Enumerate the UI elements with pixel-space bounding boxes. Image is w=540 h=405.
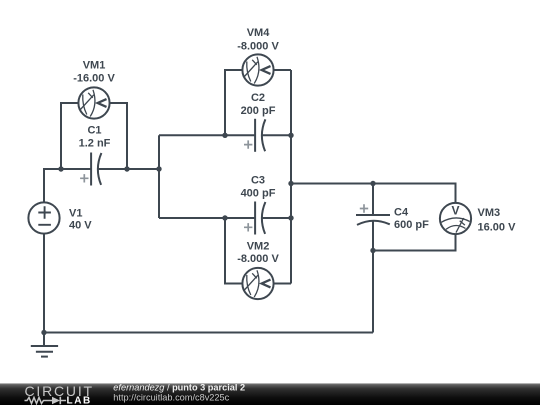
wire C4 bottom lead [372,221,374,251]
wire C4 to ground rail [372,251,374,333]
wire VM1 left lead [61,103,78,169]
wire node B to VM3 top [291,184,456,203]
svg-text:-16.00 V: -16.00 V [73,73,115,85]
node junction ground [41,330,46,335]
svg-text:efernandezg / punto 3 parcial: efernandezg / punto 3 parcial 2 [113,382,245,392]
wire VM4 left lead [225,70,242,135]
svg-text:V: V [451,204,459,218]
capacitor C2 [255,119,265,152]
wire node A to C2 left plate [159,134,255,136]
svg-text:VM3: VM3 [478,207,501,219]
node junction B tap [288,181,293,186]
node junction C2 right [288,133,293,138]
svg-text:V1: V1 [69,207,82,219]
svg-text:400 pF: 400 pF [241,187,276,199]
svg-text:C1: C1 [87,125,101,137]
logo diode [52,397,60,404]
node junction C1 right [124,166,129,171]
footer bar [0,383,540,405]
plus C4 [360,204,368,212]
node junction C3 right [288,215,293,220]
capacitor C4 [356,215,390,225]
plus C1 [80,174,88,182]
wire C3 right plate to node B [262,217,291,219]
svg-text:200 pF: 200 pF [241,105,276,117]
wire VM3 bottom loop [373,234,456,250]
svg-text:C4: C4 [394,207,409,219]
ground [31,333,58,357]
node junction VM4 left [222,133,227,138]
wire node A vertical [158,135,160,218]
svg-text:40 V: 40 V [69,220,92,232]
plus C3 [244,223,252,231]
wire V1 bottom lead [43,234,45,333]
wire ground rail [44,332,373,334]
capacitor C3 [255,202,265,235]
wire node B vertical [290,70,292,284]
capacitor C1 [91,153,101,186]
svg-text:C2: C2 [251,92,265,104]
svg-text:-8.000 V: -8.000 V [237,41,279,53]
plus C2 [244,140,252,148]
voltmeter VM2 [242,268,273,299]
voltage source V1 [28,202,59,233]
wire VM2 right lead [274,283,291,285]
svg-text:VM4: VM4 [247,27,271,39]
wire node A to C3 left plate [159,217,255,219]
wire VM4 right lead [274,69,291,71]
svg-text:-8.000 V: -8.000 V [237,253,279,265]
node junction VM2 left [222,215,227,220]
svg-text:600 pF: 600 pF [394,219,429,231]
svg-text:16.00 V: 16.00 V [478,222,517,234]
wire C2 right plate to node B [262,134,291,136]
svg-text:LAB: LAB [67,396,92,405]
voltmeter VM4 [242,54,273,85]
wire C4 top lead [372,184,374,216]
voltmeter VM3 [440,203,471,234]
wire V1 top to C1 left plate [44,169,91,203]
logo resistor zigzag [25,398,53,404]
node junction C4 bottom [370,248,375,253]
svg-text:VM1: VM1 [83,60,106,72]
svg-text:1.2 nF: 1.2 nF [79,138,111,150]
node A junction [156,166,161,171]
node junction V1/C1 [58,166,63,171]
svg-text:C3: C3 [251,174,265,186]
op: voltmeter VM1 [78,87,109,118]
svg-text:http://circuitlab.com/c8v225c: http://circuitlab.com/c8v225c [113,392,229,402]
wire VM1 right lead [110,103,127,169]
wire VM2 left lead [225,218,242,284]
svg-text:VM2: VM2 [247,240,270,252]
wire C1 right plate to node A [98,168,159,170]
node junction C4 top [370,181,375,186]
